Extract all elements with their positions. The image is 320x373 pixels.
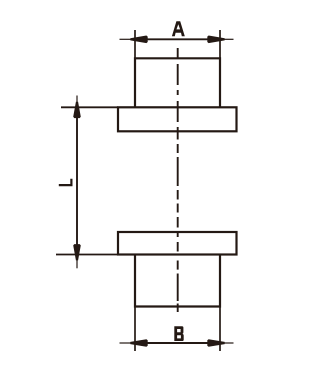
dimension L overshoot top	[76, 96, 78, 103]
dimension L arrowhead bottom	[74, 245, 79, 260]
dimension B line	[135, 342, 220, 344]
dimension A line	[135, 38, 220, 40]
dimension B extension line right	[219, 307, 221, 352]
dimension A overshoot left	[120, 38, 132, 40]
dimension A arrowhead left	[131, 37, 147, 42]
dimension B arrowhead right	[208, 340, 224, 345]
bottom boss outline	[135, 255, 220, 307]
dimension B overshoot right	[224, 342, 234, 344]
dimension L overshoot bottom	[76, 260, 78, 268]
dimension A extension line left	[134, 30, 136, 58]
dimension A overshoot right	[224, 38, 234, 40]
label B	[174, 326, 183, 341]
bottom flange outline	[118, 232, 237, 255]
dimension L arrowhead top	[74, 102, 79, 117]
dimension A arrowhead right	[208, 37, 224, 42]
top boss outline	[135, 58, 220, 107]
centerline (dashed axis)	[177, 48, 179, 312]
top flange outline	[118, 107, 237, 131]
dimension L extension line top	[61, 106, 118, 108]
dimension B extension line left	[134, 307, 136, 352]
dimension L line	[76, 108, 78, 254]
dimension B arrowhead left	[131, 340, 147, 345]
dimension B overshoot left	[120, 342, 132, 344]
dimension A extension line right	[219, 30, 221, 58]
dimension L extension line bottom	[56, 254, 118, 256]
label L	[59, 179, 73, 187]
label A	[172, 21, 185, 36]
